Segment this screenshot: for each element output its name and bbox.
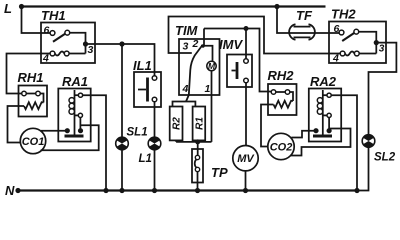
junction TH1 node3 dot [83, 41, 88, 46]
terminal circle RA2 mid [327, 113, 331, 117]
lamp L1 [148, 137, 161, 150]
svg-text:R1: R1 [195, 117, 206, 130]
wire SL2 to N end [357, 147, 369, 190]
contact circle TH2-3b [354, 51, 359, 56]
relay RA2 coil turn 2 [317, 103, 322, 108]
junction dot TP branch [195, 139, 200, 144]
contact circle TH2-6 [339, 30, 344, 35]
wire RH1 to CO1 [8, 106, 25, 143]
junction N dot [15, 188, 20, 193]
lamp switch IL1 box [134, 72, 161, 107]
resistor R2 box [170, 107, 183, 141]
wire TF through [289, 32, 340, 34]
svg-text:1: 1 [205, 83, 211, 95]
wire TIM-3 to TH2-4 [169, 17, 341, 54]
compressor CO1 [20, 128, 45, 153]
contact circle TH1-3a [65, 30, 70, 35]
contact circle RH1 left [22, 91, 27, 96]
svg-text:TF: TF [296, 8, 313, 23]
junction dot SL1-N [119, 188, 124, 193]
wire RH2 contact bridge [276, 91, 285, 93]
svg-text:3: 3 [88, 44, 94, 56]
wire N rail [18, 189, 357, 191]
wire RH2 to CO2 [261, 105, 274, 147]
relay RA2 core line [322, 90, 324, 135]
terminal circle RA1 top [78, 93, 82, 97]
junction dot TP-N [195, 188, 200, 193]
wire TH1 bottom contact to node3 [69, 53, 85, 55]
signal lamp SL2 [362, 135, 375, 148]
relay RA2 coil turn 1 [317, 98, 322, 103]
svg-text:TIM: TIM [175, 23, 199, 38]
svg-text:RH2: RH2 [268, 68, 295, 83]
thermal fuse TF capsule [289, 24, 295, 39]
svg-text:3: 3 [183, 41, 189, 53]
svg-text:RH1: RH1 [18, 70, 44, 85]
wire CO2 bottom loop to RA2 [291, 129, 351, 156]
resistor R1 box [193, 107, 206, 141]
terminal circle IL1 bottom [152, 97, 157, 102]
timer blade TIM [186, 45, 203, 102]
wire TIM-2 bus to RH2 [204, 29, 271, 92]
wire RA1 coil top stub [75, 94, 79, 96]
fan motor MV [233, 146, 258, 171]
svg-text:CO1: CO1 [22, 136, 45, 148]
wire L to TF [277, 7, 289, 34]
terminal circle RA2 top [327, 93, 331, 97]
wire CO2 top to RA2 left dot [291, 131, 316, 138]
timer motor M circle [207, 61, 216, 70]
junction L dot [19, 4, 24, 9]
wire TP stub [197, 142, 199, 155]
wire TIM-1 down [211, 71, 213, 142]
relay RA1 coil turn 1 [69, 98, 74, 103]
wire IMV to MV [245, 83, 247, 146]
terminal circle TP top [195, 155, 199, 159]
svg-text:SL1: SL1 [127, 127, 148, 139]
thermostat TH1 box [41, 23, 95, 64]
terminal circle IL1 top [152, 76, 157, 81]
terminal circle IMV top [244, 59, 249, 64]
heater zigzag RH1 [24, 102, 44, 109]
svg-text:IMV: IMV [219, 37, 243, 52]
relay RA2 coil turn 3 [317, 109, 322, 114]
wire MV to N rail [245, 171, 247, 191]
svg-text:4: 4 [182, 83, 189, 95]
relay RA1 core line [74, 90, 76, 135]
wire RH1 right link [40, 94, 43, 103]
svg-text:TH2: TH2 [331, 7, 356, 22]
wire TIM-2 from top [203, 29, 205, 46]
wire RA2 coil mid stub [323, 114, 327, 116]
fan switch IMV box [227, 55, 252, 88]
junction dot L1-N [152, 188, 157, 193]
contact circle TH2-4 [340, 51, 345, 56]
svg-text:N: N [5, 183, 15, 198]
contact dot RA2 left [313, 128, 318, 133]
svg-text:R2: R2 [172, 117, 183, 130]
wire TH1-3 to IL1 top [86, 44, 155, 76]
switch blade TH2 [342, 33, 354, 41]
wire CO1 bottom loop to RA1 [41, 125, 99, 150]
svg-text:3: 3 [379, 44, 385, 55]
wire RA1 coil mid stub [75, 114, 79, 116]
svg-text:2: 2 [192, 38, 199, 50]
contact dot RA2 right [327, 128, 332, 133]
svg-text:6: 6 [44, 25, 50, 37]
wire RA2 top to N rail [331, 95, 357, 190]
svg-text:L: L [4, 1, 12, 16]
contact circle TH1-6 [50, 31, 55, 36]
junction dot MV-N [243, 188, 248, 193]
wire RA1 mid to contact dot [79, 118, 81, 131]
IL1 actuator stub [138, 89, 146, 91]
signal lamp SL1 [116, 137, 129, 150]
IL1 actuator bar [146, 78, 149, 102]
contact dot RA1 left [65, 128, 70, 133]
wire L1 to N rail [154, 150, 156, 191]
wire RA1 top to N rail [83, 95, 106, 190]
IMV actuator bar [236, 62, 239, 79]
wire heater top bus [173, 102, 196, 107]
relay RA2 box [309, 89, 341, 142]
wire TH2-3 to SL2 [369, 43, 397, 135]
contact circle TH2-3a [354, 29, 359, 34]
junction dot SL1 branch [119, 41, 124, 46]
wire TH2 top contact to node3 [359, 32, 377, 54]
terminal circle IMV bottom [244, 78, 249, 83]
terminal circle TP bottom [195, 167, 199, 171]
wire TP to N rail [197, 172, 199, 191]
wire IL1 to L1 [154, 102, 156, 137]
contact circle RH2 right [285, 90, 290, 95]
wire L rail [22, 5, 326, 7]
TP bimetal curve [195, 159, 197, 167]
wire L to TH1 pin6 [22, 7, 51, 34]
wire RA2 coil top stub [323, 94, 327, 96]
svg-text:RA1: RA1 [62, 74, 88, 89]
svg-text:SL2: SL2 [374, 152, 396, 164]
wire SL1 branch down [121, 44, 123, 137]
armature bar RA2 [313, 135, 332, 138]
wire SL1 to N rail [121, 150, 123, 191]
contact circle TH1-3b [64, 51, 69, 56]
relay RA1 coil turn 3 [69, 109, 74, 114]
relay RA1 coil turn 2 [69, 103, 74, 108]
wire TIM pivot to motor [201, 46, 213, 62]
contact circle TH1-4 [50, 51, 55, 56]
contact dot RA1 right [78, 128, 83, 133]
wire RH2 right link [290, 92, 293, 101]
wire RA2 mid to contact dot [328, 118, 330, 131]
switch blade TH1 [53, 33, 66, 42]
contact circle RH2 left [271, 90, 276, 95]
heater zigzag RH2 [274, 101, 294, 108]
thermal protector TP box [192, 149, 203, 183]
junction dot TF branch [274, 4, 279, 9]
wire TH1-4 to RH1 [7, 54, 51, 94]
IMV actuator stub [232, 70, 236, 72]
wavy contact TH1 [55, 51, 64, 55]
wire heater bottom bus [176, 140, 211, 142]
compressor CO2 [268, 133, 294, 159]
wire TH1 top contact to node3 [70, 33, 86, 54]
svg-text:IL1: IL1 [133, 58, 152, 73]
contact circle RH1 right [36, 91, 41, 96]
svg-text:MV: MV [237, 153, 255, 165]
svg-text:TP: TP [211, 165, 228, 180]
junction dot IMV branch [244, 26, 249, 31]
junction dot RA1-N [103, 188, 108, 193]
wire TH2 bottom contact to node3 [359, 53, 376, 55]
relay RH2 box [268, 84, 297, 115]
svg-text:L1: L1 [139, 153, 152, 165]
thermostat TH2 box [329, 22, 386, 64]
junction dot N end [354, 188, 359, 193]
svg-text:TH1: TH1 [41, 8, 66, 23]
svg-text:4: 4 [332, 53, 339, 65]
junction TH2 node3 dot [374, 40, 379, 45]
terminal circle RA1 mid [78, 113, 82, 117]
relay RA1 box [58, 89, 90, 142]
armature bar RA1 [65, 135, 84, 138]
svg-text:M: M [208, 61, 216, 71]
timer TIM box [179, 39, 220, 95]
svg-text:RA2: RA2 [310, 74, 337, 89]
relay RH1 box [19, 86, 48, 117]
svg-text:CO2: CO2 [270, 142, 293, 154]
wavy contact TH2 [345, 51, 354, 55]
wire RH1 contact bridge [26, 93, 35, 95]
wire CO1 top to RA1 left dot [41, 130, 67, 132]
wire IMV from bus [245, 29, 247, 59]
